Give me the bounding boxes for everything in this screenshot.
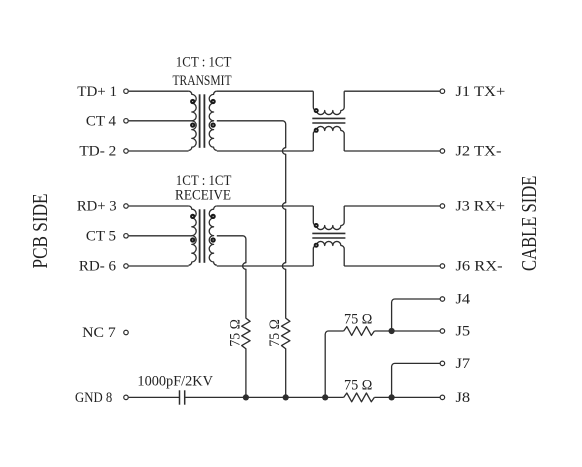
svg-text:TRANSMIT: TRANSMIT [173,71,232,88]
svg-text:J6 RX-: J6 RX- [456,258,503,274]
svg-text:CABLE SIDE: CABLE SIDE [518,176,542,271]
svg-text:J2 TX-: J2 TX- [456,143,502,159]
svg-text:J5: J5 [456,323,471,339]
svg-text:J8: J8 [456,390,471,406]
svg-text:75 Ω: 75 Ω [266,319,283,346]
svg-text:CT 5: CT 5 [86,228,116,244]
svg-text:GND 8: GND 8 [75,390,112,406]
svg-text:J4: J4 [456,291,471,307]
svg-text:1000pF/2KV: 1000pF/2KV [137,373,213,389]
svg-text:TD+ 1: TD+ 1 [77,84,117,100]
svg-text:75 Ω: 75 Ω [227,319,244,346]
svg-text:75 Ω: 75 Ω [344,377,373,393]
svg-text:NC 7: NC 7 [82,324,116,341]
svg-text:PCB SIDE: PCB SIDE [29,194,52,269]
svg-text:J3 RX+: J3 RX+ [456,198,506,214]
svg-text:J1 TX+: J1 TX+ [456,83,506,99]
svg-text:RD+ 3: RD+ 3 [77,198,117,214]
svg-text:J7: J7 [456,356,471,372]
svg-text:75 Ω: 75 Ω [344,311,373,327]
svg-text:RD- 6: RD- 6 [79,259,117,275]
svg-text:RECEIVE: RECEIVE [175,187,231,204]
svg-text:TD- 2: TD- 2 [79,143,116,160]
svg-text:1CT : 1CT: 1CT : 1CT [176,55,232,71]
svg-text:CT 4: CT 4 [86,113,117,129]
